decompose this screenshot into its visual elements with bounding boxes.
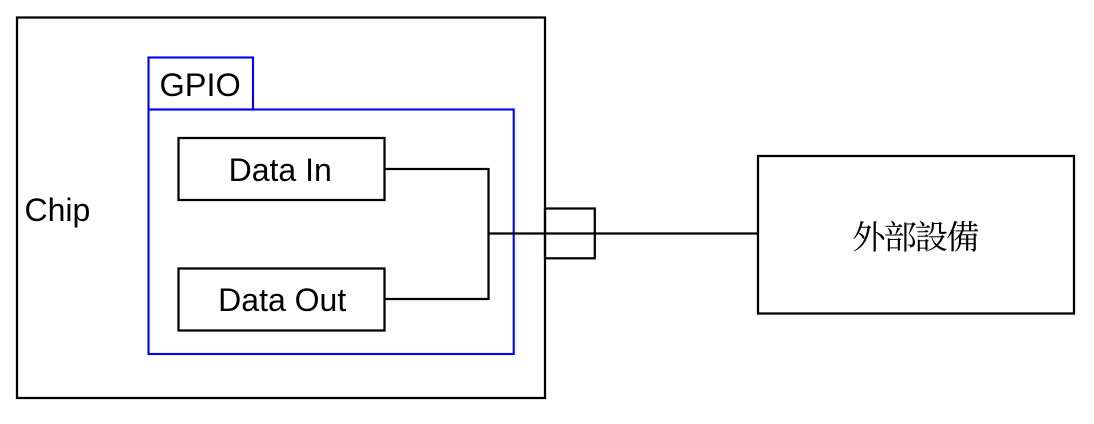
CJK glyph 備 (bei) of external device label — [947, 221, 978, 252]
wire from Data Out to junction — [385, 298, 489, 300]
junction vertical wire — [487, 168, 489, 300]
wire from Data In to junction — [385, 168, 489, 170]
CJK glyph 外 (wai) of external device label — [853, 221, 884, 252]
main wire from junction to external device — [489, 232, 759, 234]
svg-text:Chip: Chip — [25, 192, 91, 228]
GPIO package body box — [149, 110, 514, 355]
svg-text:GPIO: GPIO — [160, 67, 241, 103]
Data Out block box — [179, 269, 385, 331]
external device box — [758, 156, 1074, 314]
chip outer box — [17, 18, 545, 399]
svg-text:Data Out: Data Out — [218, 282, 346, 318]
GPIO package tab box — [149, 58, 254, 110]
svg-text:Data In: Data In — [229, 152, 332, 188]
port square on chip boundary — [545, 209, 595, 259]
CJK glyph 設 (she) of external device label — [916, 221, 947, 252]
CJK glyph 部 (bu) of external device label — [885, 221, 916, 252]
Data In block box — [179, 138, 385, 200]
